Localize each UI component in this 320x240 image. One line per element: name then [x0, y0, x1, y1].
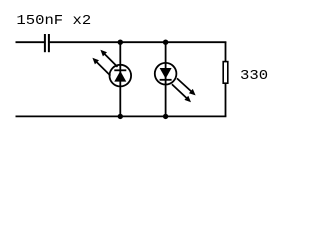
svg-text:330: 330 [240, 69, 268, 84]
LED D2 arrow 2 [172, 84, 187, 98]
capacitor C1 plate right [48, 34, 50, 52]
LED D1 (left, cathode up) [92, 50, 131, 87]
wire left LED branch vertical [119, 42, 121, 116]
wire right side vertical through resistor [225, 42, 227, 62]
LED D2 (right, cathode down) [155, 63, 196, 102]
junction bottom-left [118, 114, 123, 119]
junction bottom-right [163, 114, 168, 119]
wire right LED branch vertical [165, 42, 167, 116]
wire top-left to capacitor [16, 41, 45, 43]
LED D2 arrow 1 [177, 78, 192, 92]
wire bottom rail [16, 115, 227, 117]
wire capacitor to top-right corner [50, 41, 227, 43]
LED D1 arrow 1 [104, 54, 117, 67]
resistor R1 body [223, 62, 228, 84]
capacitor C1 plate left [44, 34, 46, 52]
junction top-left [118, 40, 123, 45]
junction top-right [163, 40, 168, 45]
svg-text:150nF x2: 150nF x2 [16, 14, 91, 29]
LED D1 arrow 2 [96, 62, 110, 76]
